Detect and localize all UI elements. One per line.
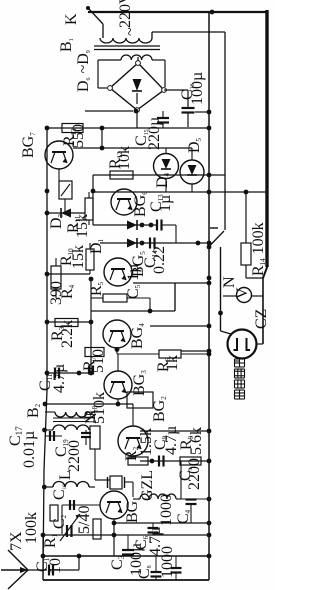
BG1 base wire (62, 504, 100, 506)
inductor L coil (53, 482, 89, 488)
capacitor C11 plates (54, 368, 56, 379)
capacitor C14 plates (149, 238, 151, 249)
junction 114-523 (112, 521, 117, 526)
C8 stub a (155, 556, 157, 572)
output stub 325 (150, 325, 209, 327)
capacitor C16 plates (182, 107, 195, 109)
svg-text:BG4: BG4 (129, 323, 146, 349)
R3 wire 322 (47, 321, 91, 323)
trimmer C2 plates (66, 525, 68, 537)
R5 right lead (127, 297, 150, 299)
wire 461 (140, 460, 209, 462)
resistor R2 (128, 457, 148, 465)
R4 bottom lead (55, 289, 57, 298)
C7 stub b (175, 573, 177, 581)
R14 connector (246, 277, 263, 279)
junction 209-278 (207, 276, 212, 281)
svg-text:0.22: 0.22 (151, 246, 168, 274)
C16 lead top (187, 90, 189, 108)
svg-text:L: L (57, 470, 74, 480)
C1 right lead (54, 569, 79, 571)
wire 556 (43, 555, 209, 557)
rail 91 low (90, 322, 92, 373)
B2 upper right lead (87, 411, 95, 413)
R10 bottom lead (89, 270, 91, 274)
C6 stub b (152, 533, 154, 536)
main right rail (208, 12, 210, 580)
junction 142-243 (140, 241, 145, 246)
B2 upper coil (55, 412, 87, 417)
wire 523 (114, 522, 209, 524)
wire 148 (73, 147, 192, 149)
resistor R1b (50, 505, 58, 521)
R8 lower lead (94, 449, 96, 480)
C19 stub bottom (85, 438, 87, 446)
junction 151-225 (149, 223, 154, 228)
resistor R8 (90, 426, 100, 449)
J box diagonal (61, 184, 70, 196)
svg-text:C3: C3 (109, 555, 126, 570)
BG1 emitter down (113, 519, 115, 556)
BG2 collector (132, 404, 134, 426)
R5 left lead (91, 297, 103, 299)
capacitor C15 plates (157, 117, 169, 119)
svg-text:BG7: BG7 (20, 132, 37, 158)
BG7 emitter stub (58, 169, 60, 181)
junction rail-top (210, 10, 215, 15)
border jog (263, 266, 268, 278)
capacitor C18 plates (69, 500, 71, 510)
junction 209-354 (207, 352, 212, 357)
output stub 351 (181, 350, 209, 352)
B2 lower coil (53, 425, 89, 430)
transistor BG2 (118, 426, 148, 456)
svg-text:1k: 1k (164, 355, 181, 371)
meter left wire (223, 295, 237, 297)
secondary left lead b (97, 60, 99, 88)
resistor R7 (85, 348, 104, 357)
wire 373 (47, 372, 91, 374)
D5 bottom stub (191, 184, 193, 192)
junction BG4 emitter (115, 347, 120, 352)
junction 43-535 (41, 533, 46, 538)
junction rail-487 (42, 485, 47, 490)
junction rail-322 (45, 320, 50, 325)
wire to CZ (221, 331, 232, 334)
switch K contact (86, 6, 90, 10)
junction 102-148 (100, 146, 105, 151)
svg-text:1000: 1000 (159, 546, 176, 578)
junction 209-192 (207, 190, 212, 195)
label shuchu char1 (235, 389, 245, 391)
diode D4 circle (154, 154, 179, 179)
transistor BG1 (100, 491, 128, 519)
transformer B1 secondary coil (121, 55, 152, 60)
C19 stub top (85, 430, 87, 433)
wire 175 (93, 174, 225, 176)
capacitor C13 plates (156, 220, 158, 231)
crystal plate right (124, 477, 126, 488)
junction 206-535 (207, 533, 212, 538)
resistor R11 (85, 198, 93, 220)
meter N circle (237, 288, 252, 303)
resistor R12 (110, 171, 133, 179)
svg-text:K: K (63, 13, 80, 25)
mains stub to primary (151, 32, 153, 38)
capacitor C1 plates (48, 565, 50, 576)
B2 upper left lead (45, 411, 55, 413)
transistor BG5 (104, 258, 132, 286)
L1 right lead (176, 498, 181, 500)
D4 bottom stub (165, 179, 167, 193)
R11 bottom lead (88, 220, 90, 225)
R11 top lead (88, 192, 90, 198)
svg-text:15k: 15k (70, 245, 87, 269)
L coil right lead (89, 486, 95, 488)
wire 283 (133, 282, 209, 284)
svg-text:N: N (221, 276, 238, 288)
crystal right lead (125, 481, 133, 483)
svg-text:B1: B1 (58, 38, 75, 52)
L1 left lead (133, 498, 140, 500)
main left rail bottom (43, 470, 44, 580)
transistor BG3 (104, 371, 132, 399)
capacitor C17 plates (49, 431, 51, 441)
wire 93 down (92, 175, 94, 225)
D4 top stub (165, 148, 167, 154)
dc wire 111 (85, 110, 133, 112)
C3 stub (127, 535, 129, 550)
J box lower stub (64, 199, 66, 212)
wire 213 (47, 212, 85, 214)
svg-text:1000: 1000 (158, 494, 175, 526)
svg-text:B2: B2 (25, 403, 42, 418)
crystal to coil (132, 482, 134, 497)
junction 43-556 (41, 554, 46, 559)
bridge node left (108, 86, 113, 91)
junction 206-523 (207, 521, 212, 526)
coil L1 (140, 494, 176, 499)
socket CZ circle (228, 330, 257, 359)
svg-text:CZ: CZ (253, 309, 270, 329)
rail 91 mid (90, 279, 92, 322)
junction 206-556 (207, 554, 212, 559)
svg-text:5/40: 5/40 (76, 506, 93, 534)
junction 93-192 (91, 189, 96, 194)
svg-text:2200: 2200 (186, 458, 203, 490)
bridge right out a (164, 89, 188, 91)
rail 225 upper (224, 32, 226, 230)
junction rail-404 (43, 402, 48, 407)
wire 102 down (101, 128, 103, 148)
mains wire top (88, 11, 267, 13)
junction 198-243 (196, 241, 201, 246)
D5 top stub (191, 148, 193, 160)
svg-text:BG1: BG1 (124, 497, 141, 523)
wire 225 (93, 224, 157, 226)
C18 left lead (61, 505, 63, 534)
resistor R13 (62, 124, 83, 133)
junction 79-373 (77, 371, 82, 376)
resistor R5 (103, 294, 127, 302)
junction rail-430 (42, 428, 47, 433)
junction 91-373 (89, 371, 94, 376)
B1 core line 1 (94, 45, 160, 47)
transformer B1 primary coil (100, 38, 152, 43)
CZ right connect (257, 343, 264, 345)
R4 top lead (55, 258, 57, 266)
diode D4 symbol (162, 159, 171, 169)
svg-text:1µ: 1µ (157, 195, 174, 212)
diode D5 circle (180, 160, 204, 184)
svg-text:5.6k: 5.6k (188, 427, 205, 455)
output line left (220, 247, 222, 331)
bridge node bottom (135, 108, 140, 113)
BG3 emitter stub (117, 399, 119, 404)
svg-text:~: ~ (122, 27, 139, 36)
svg-text:15k: 15k (74, 214, 91, 238)
svg-text:10: 10 (47, 558, 64, 574)
dc bus 128 (47, 127, 209, 129)
R14 branch (245, 192, 247, 243)
wire 176 down (175, 225, 177, 243)
svg-text:C5 1µ: C5 1µ (125, 264, 142, 299)
svg-text:C2: C2 (51, 514, 68, 529)
bridge node right (162, 88, 167, 93)
transistor BG6 (111, 189, 137, 215)
secondary right lead a (152, 59, 165, 61)
junction 102-128 (100, 126, 105, 131)
capacitor C12 plates (88, 366, 90, 375)
C4 stub (190, 504, 192, 523)
secondary left lead a (98, 59, 121, 61)
junction 222-313 (218, 311, 223, 316)
crystal GZL box (110, 476, 122, 489)
junction 79-556 (77, 554, 82, 559)
R6 right lead (181, 353, 209, 355)
diode D2 (127, 239, 137, 248)
svg-text:C4: C4 (175, 509, 192, 524)
wire 535 (43, 534, 209, 536)
diode D1 (127, 221, 137, 230)
resistor R10 (86, 249, 94, 270)
BG4 emitter stub (116, 347, 118, 354)
label chazuo char1 (235, 368, 245, 370)
junction 209-243 (207, 241, 212, 246)
label shuchu char2 (235, 379, 245, 381)
R6 left lead (117, 353, 159, 355)
junction rail-213 (45, 211, 50, 216)
meter right wire (252, 295, 264, 297)
junction rail-128 right (207, 126, 212, 131)
junction 91-279 (89, 277, 94, 282)
secondary left lead c (98, 87, 107, 89)
R5 down leg (149, 298, 151, 311)
svg-text:R14 100k: R14 100k (250, 222, 267, 276)
resistor R3 (55, 319, 78, 327)
junction rail-373 (45, 371, 50, 376)
bridge node top (136, 61, 141, 66)
junction bridge bottom (134, 109, 139, 114)
svg-text:7X: 7X (8, 531, 25, 551)
resistor R1 (93, 519, 101, 539)
switch K lead (102, 24, 104, 38)
CZ contact right (247, 338, 251, 350)
BG3 collector stub (117, 354, 119, 371)
rail 43 down (42, 535, 44, 580)
resistor R14 (241, 243, 251, 265)
main left rail (46, 127, 48, 390)
switch K2 blade (210, 231, 225, 246)
svg-text:10k: 10k (116, 146, 133, 170)
crystal plate left (107, 477, 109, 488)
wire 192 long (93, 191, 267, 193)
junction K2 pivot (207, 245, 212, 250)
capacitor C8 plates (151, 571, 162, 573)
svg-text:220V: 220V (117, 0, 134, 28)
capacitor C4 plates (186, 498, 197, 500)
rail 79 (78, 556, 80, 570)
relay J box (59, 181, 72, 199)
junction rail-128 left (45, 126, 50, 131)
switch K2 contact tick (210, 227, 218, 229)
resistor R9 (180, 457, 201, 465)
junction rail-274 (45, 272, 50, 277)
C17 wire (45, 435, 63, 437)
wire 404 (45, 403, 134, 405)
svg-text:510k: 510k (91, 392, 108, 424)
C16 tap to rail (195, 111, 209, 113)
svg-text:4.7µ: 4.7µ (51, 364, 68, 393)
C7 stub a (175, 556, 177, 568)
C13 right lead (162, 224, 176, 226)
capacitor C3 plates (122, 549, 134, 551)
trimmer C2 arrow (60, 514, 80, 541)
svg-text:D6 ~D9: D6 ~D9 (75, 50, 92, 92)
svg-text:2200: 2200 (66, 440, 83, 472)
C16 lead bottom (187, 113, 189, 128)
right border wire (265, 10, 268, 267)
wire 480 (95, 479, 110, 481)
bridge inner lead (136, 93, 138, 104)
junction 209-283 (207, 281, 212, 286)
B1 core line 2 (94, 49, 160, 51)
main left rail lower (44, 390, 47, 470)
C15 lead (162, 111, 164, 118)
junction 118-404 (116, 402, 121, 407)
bridge rectifier D6-D9 diamond (110, 63, 164, 110)
svg-text:2.2k: 2.2k (59, 320, 76, 348)
transistor BG4 (103, 320, 131, 348)
bridge inner diode (133, 79, 142, 91)
CZ contact left (234, 338, 238, 350)
diode D3 (61, 209, 71, 218)
R10 wire 274 (47, 273, 90, 275)
junction 114-535 (112, 533, 117, 538)
junction 209-175 (207, 173, 212, 178)
label chazuo char2 (235, 358, 245, 360)
wire 499 (181, 498, 209, 500)
svg-text:D1: D1 (88, 238, 105, 254)
transistor BG7 (45, 141, 73, 169)
antenna wire (28, 569, 47, 571)
junction 152-461 (150, 459, 155, 464)
svg-text:D5: D5 (186, 137, 203, 153)
svg-text:100k: 100k (23, 512, 40, 544)
C15 lead b (162, 123, 164, 129)
svg-text:100µ: 100µ (189, 72, 206, 105)
junction 206-431 (207, 429, 212, 434)
junction 91-322 (89, 320, 94, 325)
B2 lower left lead (45, 429, 54, 431)
resistor R4 (51, 266, 61, 289)
junction 142-225 (140, 223, 145, 228)
svg-text:D3: D3 (48, 213, 65, 229)
switch K blade (89, 9, 103, 24)
C6 stub a (152, 523, 154, 528)
wire 243 (100, 242, 209, 244)
junction 150-311 (148, 309, 153, 314)
wire 175 up (174, 283, 176, 311)
junction 206-461 (207, 459, 212, 464)
svg-text:550: 550 (70, 124, 87, 148)
wire 311 (91, 310, 175, 312)
capacitor C7 plates (171, 567, 182, 569)
diode D5 symbol (188, 165, 197, 175)
wire 181 up (180, 461, 182, 499)
capacitor C9 plates (158, 456, 160, 467)
capacitor C6 plates (148, 527, 159, 529)
C8 stub b (155, 577, 157, 581)
capacitor C19 plates (81, 432, 91, 434)
antenna (8, 550, 28, 570)
R14 lower lead (245, 265, 247, 278)
wire 431 (140, 430, 209, 432)
bottom rail (43, 579, 209, 581)
junction rail-112 (207, 110, 212, 115)
output line right (262, 277, 264, 344)
junction 209-325 (207, 324, 212, 329)
junction rail-191 (45, 189, 50, 194)
svg-text:GZL: GZL (139, 470, 156, 501)
junction 209-351 (207, 349, 212, 354)
L coil left lead (45, 486, 54, 488)
box B3 (127, 392, 153, 408)
bridge bottom lead (136, 110, 138, 128)
B2 core line 2 (53, 421, 89, 423)
svg-text:0.01µ: 0.01µ (21, 431, 38, 468)
mains wire right leg (152, 31, 225, 33)
R10 top lead (89, 243, 91, 249)
secondary right lead b (164, 60, 166, 87)
junction R14 tap (244, 190, 249, 195)
bridge top stub (137, 57, 139, 61)
resistor R6 (159, 350, 181, 358)
junction 206-499 (207, 497, 212, 502)
B2 core line 1 (53, 417, 89, 419)
